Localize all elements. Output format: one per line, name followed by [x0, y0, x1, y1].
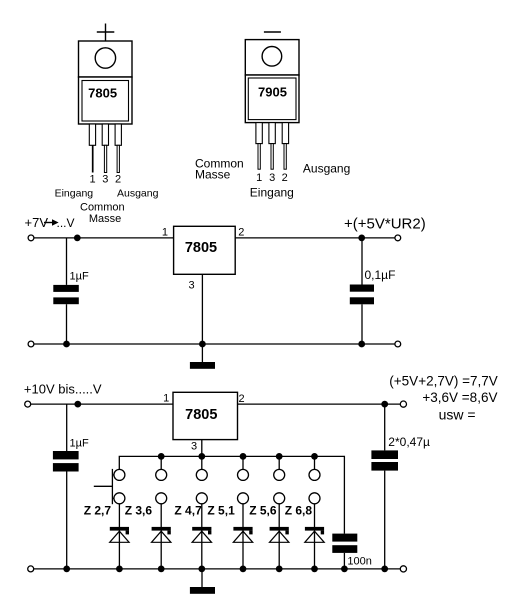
junction bus col3 (pin3): [198, 453, 205, 460]
svg-text:7805: 7805: [185, 407, 217, 423]
arrow on +7V net label: [44, 222, 53, 224]
7905 pin 2 lower lead: [284, 144, 286, 170]
ground rail left terminal: [28, 341, 34, 347]
wire: input to U1 pin1: [34, 237, 174, 239]
wire bus to col6 contact: [314, 456, 316, 469]
svg-text:Ausgang: Ausgang: [117, 188, 159, 200]
svg-text:Masse: Masse: [195, 168, 231, 182]
capacitor C4 2*0,47u: [371, 450, 398, 459]
ground rail right terminal: [395, 341, 401, 347]
7905 pin 3 lower lead: [271, 144, 273, 170]
junction ground rail x=243.0: [240, 566, 247, 573]
junction on output wire: [358, 235, 365, 242]
svg-text:1µF: 1µF: [70, 270, 89, 282]
7805 body inner frame: [82, 81, 129, 122]
svg-text:1µF: 1µF: [70, 438, 89, 450]
junction ground rail x=384.7: [381, 566, 388, 573]
svg-text:...V: ...V: [57, 216, 75, 230]
svg-text:1: 1: [256, 172, 262, 184]
junction ground rail x=344.4: [341, 566, 348, 573]
svg-text:2: 2: [115, 174, 121, 186]
svg-text:2: 2: [238, 227, 244, 239]
svg-text:Eingang: Eingang: [55, 188, 94, 200]
svg-text:3: 3: [191, 440, 197, 452]
svg-text:3: 3: [269, 172, 275, 184]
wire: C4 branch down: [384, 404, 386, 450]
svg-text:Z 2,7: Z 2,7: [84, 504, 112, 518]
junction ground rail x=314.5: [311, 566, 318, 573]
junction C2/ground rail: [358, 341, 365, 348]
junction ground rail x=119.4: [116, 566, 123, 573]
svg-text:Eingang: Eingang: [250, 186, 294, 200]
col1 upper contact: [114, 469, 125, 480]
zener D1 (Z 2,7): [110, 504, 129, 569]
regulator 7905 TO-220 package: tab: [245, 40, 299, 75]
svg-text:1: 1: [163, 393, 169, 405]
junction ground rail x=66.7: [63, 566, 70, 573]
col4 lower contact: [238, 493, 249, 504]
col5 upper contact: [274, 469, 285, 480]
ground rail wire: [34, 343, 395, 345]
wire: U1 pin3 down: [201, 274, 203, 344]
junction on output wire: [381, 401, 388, 408]
output terminal: [400, 401, 406, 407]
svg-text:1: 1: [89, 174, 95, 186]
junction bus col2: [158, 453, 165, 460]
wire: U2 pin3 down to selector bus: [201, 440, 203, 457]
col2 upper contact: [156, 469, 167, 480]
junction ground rail x=201.8: [198, 566, 205, 573]
svg-text:+3,6V =8,6V: +3,6V =8,6V: [422, 390, 497, 405]
wire: U1 pin2 to output: [235, 237, 395, 239]
zener D4 (Z 5,1): [233, 504, 252, 569]
zener D5 (Z 5,6): [270, 504, 289, 569]
svg-text:Common: Common: [80, 202, 125, 214]
regulator 7805 TO-220 package: tab: [79, 41, 133, 77]
col4 upper contact: [238, 469, 249, 480]
svg-text:7805: 7805: [185, 240, 217, 256]
svg-text:100n: 100n: [347, 556, 371, 568]
junction bus col5: [276, 453, 283, 460]
wire: input to U2 pin1: [31, 403, 173, 405]
7805 body outline: [79, 77, 133, 124]
zener D6 (Z 6,8): [305, 504, 324, 569]
svg-text:1: 1: [162, 226, 168, 238]
wire bus to col3 contact: [201, 456, 203, 469]
ground symbol: [201, 569, 203, 587]
wire bus to col4 contact: [242, 456, 244, 469]
svg-text:Z 6,8: Z 6,8: [285, 504, 313, 518]
junction on input wire: [74, 235, 81, 242]
input terminal: [28, 235, 34, 241]
svg-text:+(+5V*UR2): +(+5V*UR2): [344, 215, 426, 232]
svg-text:Z 3,6: Z 3,6: [125, 504, 153, 518]
wire: C4 to ground rail: [384, 471, 386, 569]
capacitor C2 0,1uF: [350, 285, 374, 292]
7905 pin 1 upper lead: [256, 123, 262, 144]
7805 pin 2 upper lead: [115, 124, 121, 145]
junction bus col4: [240, 453, 247, 460]
wire: C3 to ground rail: [66, 472, 68, 569]
svg-text:+10V bis.....V: +10V bis.....V: [24, 381, 102, 396]
capacitor C3 1uF: [53, 451, 79, 459]
regulator U2 7805: [173, 392, 238, 439]
7805 pin 1 upper lead: [89, 124, 95, 145]
capacitor C5 100n: [332, 534, 357, 542]
junction on input wire: [74, 401, 81, 408]
junction ground rail x=279.2: [276, 566, 283, 573]
regulator U1 7805: [174, 226, 236, 274]
7905 pin 1 lower lead: [258, 144, 260, 170]
7805 pin 3 upper lead: [102, 124, 108, 145]
7805 pin 3 lower lead: [104, 145, 106, 172]
junction bus col6: [311, 453, 318, 460]
col3 lower contact: [196, 493, 207, 504]
wire: C3 branch down: [66, 404, 68, 451]
junction pin3/ground rail: [199, 341, 206, 348]
7905 mounting hole: [262, 47, 282, 67]
wire: U2 pin2 to output: [238, 403, 401, 405]
svg-text:3: 3: [189, 280, 195, 292]
ground rail left terminal: [28, 566, 34, 572]
7805 mounting hole: [95, 48, 115, 68]
col5 lower contact: [274, 493, 285, 504]
selector wiper lever: [111, 469, 113, 504]
wire bus to col2 contact: [160, 456, 162, 469]
junction C1/ground rail: [63, 341, 70, 348]
svg-text:Ausgang: Ausgang: [303, 162, 350, 176]
svg-text:7905: 7905: [258, 85, 287, 100]
input terminal: [25, 401, 31, 407]
svg-text:2: 2: [239, 393, 245, 405]
col6 lower contact: [309, 493, 320, 504]
selector bus wire: [119, 456, 344, 533]
capacitor C1 1uF: [53, 285, 79, 292]
svg-text:2: 2: [282, 172, 288, 184]
7905 body inner frame: [248, 78, 296, 120]
col3 upper contact: [196, 469, 207, 480]
7905 body outline: [245, 75, 299, 123]
col2 lower contact: [156, 493, 167, 504]
svg-text:(+5V+2,7V) =7,7V: (+5V+2,7V) =7,7V: [389, 373, 497, 388]
zener D3 (Z 4,7): [192, 504, 211, 569]
plus polarity symbol for 7805: [97, 24, 115, 41]
wire: C1 branch down: [66, 238, 68, 285]
svg-text:2*0,47µ: 2*0,47µ: [388, 435, 430, 449]
svg-text:usw =: usw =: [439, 407, 476, 423]
minus polarity symbol for 7905: [264, 31, 281, 33]
7905 pin 2 upper lead: [282, 123, 288, 144]
svg-text:Z 4,7: Z 4,7: [174, 504, 202, 518]
svg-text:0,1µF: 0,1µF: [365, 268, 396, 282]
wire: C5 to ground rail: [343, 553, 345, 569]
7905 pin 3 upper lead: [269, 123, 275, 144]
7805 pin 1 lower lead (solid): [92, 145, 94, 172]
ground symbol: [201, 344, 203, 362]
wire: C2 to ground rail: [361, 304, 363, 344]
output terminal: [395, 235, 401, 241]
svg-text:Masse: Masse: [89, 213, 121, 225]
col1 lower contact: [114, 493, 125, 504]
wire: C2 branch down: [361, 238, 363, 285]
svg-text:7805: 7805: [88, 85, 117, 100]
ground rail wire: [34, 568, 401, 570]
wire: C1 to ground rail: [66, 304, 68, 344]
7805 pin 2 lower lead: [117, 145, 119, 172]
wire bus to col5 contact: [278, 456, 280, 469]
svg-text:Z 5,6: Z 5,6: [249, 504, 277, 518]
svg-text:Z 5,1: Z 5,1: [207, 504, 235, 518]
zener D2 (Z 3,6): [152, 504, 171, 569]
col6 upper contact: [309, 469, 320, 480]
ground rail right terminal: [400, 566, 406, 572]
junction ground rail x=161.2: [158, 566, 165, 573]
svg-text:3: 3: [102, 174, 108, 186]
